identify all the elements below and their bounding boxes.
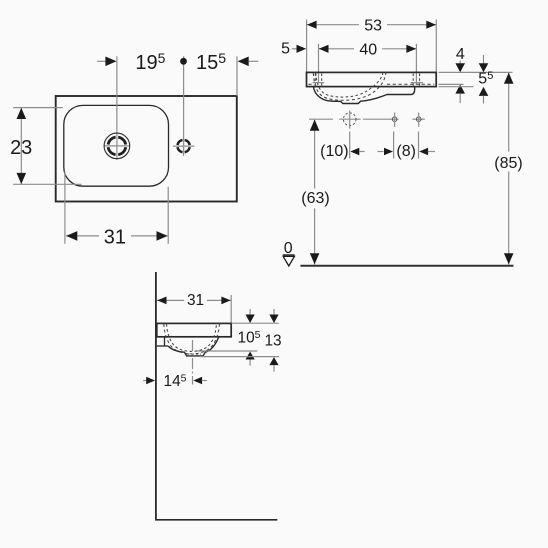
svg-text:23: 23 — [10, 137, 32, 159]
dim 53 left extension line — [306, 20, 308, 73]
front hidden rim line left — [308, 83, 313, 85]
dim 5.5 lower extension line — [439, 86, 474, 88]
dim 14.5 arrow left — [193, 377, 202, 385]
dim shared dot — [180, 58, 187, 65]
dim 13 lower extension line — [200, 356, 279, 358]
drill row centerline segment A — [309, 118, 333, 120]
front right tap hole hidden marks — [412, 74, 414, 86]
dim 85 line lower — [508, 172, 510, 265]
dim 10 arrow left — [350, 148, 359, 156]
side under-slab bracket vertical — [164, 337, 166, 346]
dim 31 plan line — [66, 235, 168, 237]
dim 23 line — [20, 108, 22, 185]
dim 15.5 tail line — [249, 60, 259, 62]
dim 10.5 arrow down shaft — [249, 309, 251, 315]
drill row centerline segment D — [412, 118, 424, 120]
front bowl hidden arc outer — [313, 73, 386, 100]
dim 53 right extension line — [435, 20, 437, 73]
front hidden rim line right — [387, 83, 434, 85]
drain centerline vertical — [116, 56, 118, 160]
plan countertop outer rect — [56, 96, 237, 202]
dim 4 arrow down shaft — [459, 61, 461, 65]
front bowl hidden arc inner — [316, 73, 383, 97]
dim 40 left extension line — [318, 44, 320, 84]
plan basin rounded rect — [64, 105, 169, 186]
svg-text:13: 13 — [264, 332, 281, 349]
dim 53 label — [359, 16, 387, 32]
dim 31 plan label — [99, 226, 131, 245]
drain bold circle arcs — [108, 137, 126, 155]
dim 40 label — [354, 40, 382, 56]
dim 53 arrow left — [307, 21, 317, 29]
dim 31 side arrow right — [221, 297, 230, 305]
side bowl outline — [168, 337, 219, 356]
dim 5 tail line — [292, 48, 298, 50]
dim 85 arrow down — [504, 253, 514, 264]
dim 5.5 arrow up — [479, 87, 489, 96]
hole cross 3 circle — [416, 117, 421, 122]
dim 5.5 arrow down shaft — [483, 55, 485, 64]
tap hole centerline horizontal — [173, 145, 194, 147]
plan right edge extension line — [236, 56, 238, 96]
svg-text:40: 40 — [359, 42, 377, 59]
zero level open triangle — [283, 256, 294, 266]
dim 10.5 arrow up — [246, 352, 255, 360]
dim 31 side right extension line — [230, 295, 232, 323]
dim 53 arrow right — [426, 21, 436, 29]
front right tap hole tick — [411, 82, 423, 84]
dim 85 arrow up — [504, 73, 514, 84]
dim 40 right extension line — [415, 44, 417, 84]
dim 8 arrow tail — [428, 151, 435, 153]
dim 63 arrow up — [310, 120, 320, 131]
side slab top extension line — [232, 322, 279, 324]
dim 31 plan arrow left — [66, 231, 77, 241]
dim 4 arrow down — [455, 63, 465, 72]
drain hole dashed circle — [343, 113, 356, 126]
dim 19.5 arrow right — [105, 57, 116, 67]
dim 5.5 arrow down — [479, 63, 489, 72]
ground line — [300, 265, 513, 267]
svg-text:5: 5 — [281, 41, 290, 58]
dim 5.5 arrow up shaft — [483, 96, 485, 104]
drain outer circle — [104, 133, 130, 159]
dim 23 top extension line — [13, 107, 63, 109]
dim 14.5 arrow right — [146, 377, 155, 385]
dim 31 plan left extension line — [64, 172, 66, 244]
dim 4 arrow up shaft — [459, 93, 461, 103]
dim 13 arrow up — [269, 357, 278, 365]
hole cross 2 circle — [392, 117, 397, 122]
side bowl hidden rim arc inner — [167, 324, 217, 351]
dim 31 side line — [157, 299, 231, 301]
dim 40 line — [319, 48, 417, 50]
dim 31 side label — [184, 293, 207, 307]
side slab rect — [157, 323, 231, 336]
dim 10 left extension line — [349, 132, 351, 159]
dim 63 line lower — [314, 209, 316, 265]
dim 23 arrow up — [17, 108, 27, 119]
tap hole centerline vertical — [183, 56, 185, 156]
dim 31 plan arrow right — [157, 231, 168, 241]
drain centerline horizontal — [104, 145, 130, 147]
dim 63 line upper — [314, 120, 316, 189]
dim 8 arrow — [419, 148, 428, 156]
front left tap hole hidden marks — [314, 74, 316, 86]
svg-text:4: 4 — [456, 46, 465, 63]
side under-slab bracket horizontal — [157, 345, 168, 347]
dim 31 plan right extension line — [167, 187, 169, 244]
dim 10.5 arrow down — [246, 315, 255, 324]
dim 40 arrow right — [406, 45, 416, 53]
dim 10 arrow right — [384, 148, 393, 156]
dim 10 arrow left tail — [359, 151, 365, 153]
dim 10 right extension line — [393, 132, 395, 159]
dim 13 arrow up shaft — [273, 365, 275, 372]
front slab rect — [307, 72, 437, 86]
svg-text:31: 31 — [187, 292, 204, 309]
dim 13 arrow down — [269, 315, 278, 324]
top reference extension line — [439, 71, 513, 73]
tap hole bold circle arcs — [178, 140, 190, 152]
side drain axis dash-dot — [192, 340, 194, 385]
dim 4 arrow up — [455, 85, 465, 94]
side drain hidden marks — [187, 353, 201, 355]
dim 31 side arrow left — [157, 297, 166, 305]
drain hole vertical line — [349, 111, 351, 129]
dim 53 line — [307, 24, 437, 26]
dim 19.5 tail line — [97, 60, 105, 62]
svg-text:(10): (10) — [320, 143, 348, 160]
svg-text:53: 53 — [364, 18, 382, 35]
dim 13 arrow down shaft — [273, 309, 275, 315]
dim 15.5 arrow left — [238, 57, 249, 67]
drill row centerline segment B — [339, 118, 361, 120]
dim 40 arrow left — [319, 45, 329, 53]
side bowl hidden rim arc outer — [164, 324, 220, 354]
svg-text:(8): (8) — [396, 143, 416, 160]
dim 85 line upper — [508, 73, 510, 152]
dim 5 arrow right — [297, 45, 307, 53]
dim 14.5 tail right — [202, 380, 207, 382]
svg-text:31: 31 — [104, 227, 126, 249]
dim 10.5 arrow up shaft — [249, 360, 251, 366]
zero level underline — [283, 254, 295, 256]
hole cross 2 vertical — [394, 113, 396, 127]
svg-text:(63): (63) — [301, 190, 329, 207]
dim 23 arrow down — [17, 173, 27, 184]
dim 10 arrow right tail — [378, 151, 384, 153]
front left tap hole tick — [313, 82, 325, 84]
wall line — [155, 272, 157, 520]
dim 23 bottom extension line — [13, 183, 82, 185]
dim 4 lower extension line — [439, 83, 464, 85]
floor line — [155, 519, 277, 521]
dim 10.5 lower extension line — [197, 350, 257, 352]
front bowl outline — [314, 87, 415, 104]
svg-text:(85): (85) — [494, 155, 522, 172]
dim 63 arrow down — [310, 253, 320, 264]
hole cross 3 vertical — [418, 113, 420, 127]
dim 14.5 tail left — [143, 380, 147, 382]
dim 8 right extension line — [418, 132, 420, 159]
drill row centerline segment C — [363, 118, 399, 120]
